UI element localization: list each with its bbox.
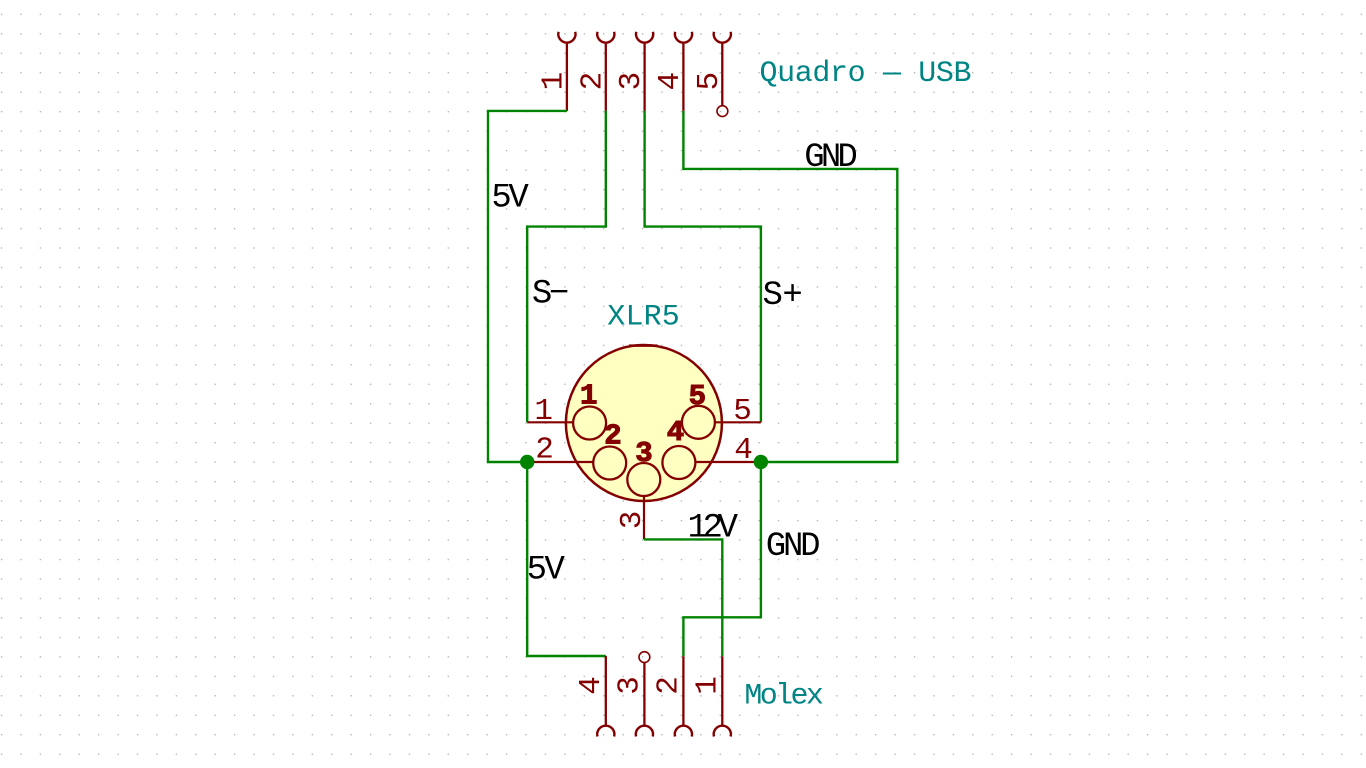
J2 socket arc pin 4: [597, 726, 614, 737]
svg-text:XLR5: XLR5: [607, 301, 680, 335]
svg-text:S−: S−: [532, 276, 569, 314]
svg-text:4: 4: [734, 433, 753, 468]
svg-text:2: 2: [604, 420, 621, 453]
junction dot left (5V net): [520, 455, 534, 469]
XLR pin 5 contact circle: [682, 406, 715, 439]
svg-text:5: 5: [692, 72, 727, 91]
connector J1 "Quadro - USB" top socket arcs: [558, 32, 731, 43]
J2 socket arc pin 2: [675, 726, 692, 737]
svg-text:2: 2: [535, 432, 554, 467]
svg-text:1: 1: [534, 394, 553, 429]
J1 pin 5 line: [721, 42, 723, 106]
J2 socket arc pin 1: [714, 726, 731, 737]
svg-text:2: 2: [575, 72, 610, 91]
XLR pin 4 stub: [695, 461, 761, 463]
wire net 12V: XLR pin3 to Molex pin1: [644, 539, 722, 656]
junction dot right (GND net): [754, 455, 768, 469]
svg-text:Molex: Molex: [744, 679, 824, 713]
J1 pin 1 line: [566, 42, 568, 111]
J2 pin 1 line: [721, 656, 723, 726]
svg-text:4: 4: [667, 416, 684, 449]
J1 socket arc pin 1: [558, 32, 575, 43]
J1 pin 3 line: [643, 42, 645, 111]
wire net S+: J1 pin3 to XLR pin5: [645, 111, 761, 422]
svg-text:4: 4: [574, 676, 609, 695]
XLR pin 1 contact circle: [573, 407, 606, 440]
svg-text:GND: GND: [766, 528, 821, 566]
wire net 5V top: J1 pin1 to left junction: [488, 111, 567, 462]
J1 pin 5 unconnected end circle: [717, 106, 728, 117]
XLR pin 3 stub: [643, 495, 645, 539]
svg-text:3: 3: [635, 437, 652, 470]
svg-text:2: 2: [651, 676, 686, 695]
XLR5 key notch chord: [629, 344, 657, 347]
J2 socket arc pin 3: [636, 726, 653, 737]
connector J2 Molex socket arcs: [597, 726, 731, 737]
connector J2 Molex pin lines: [606, 656, 723, 726]
wire net 5V bottom: left junction to Molex pin4: [527, 462, 606, 656]
J2 pin 2 line: [682, 656, 684, 726]
svg-text:3: 3: [612, 676, 647, 695]
svg-text:S+: S+: [763, 277, 803, 315]
XLR pin 2 stub: [527, 461, 594, 463]
J2 pin 3 unconnected end circle: [639, 652, 650, 663]
svg-text:5: 5: [733, 394, 752, 429]
J2 pin 4 line: [605, 656, 607, 726]
J1 socket arc pin 4: [675, 32, 692, 43]
XLR pin 3 contact circle: [627, 463, 660, 496]
J1 socket arc pin 2: [597, 32, 614, 43]
J1 pin 4 line: [682, 42, 684, 111]
svg-text:5V: 5V: [491, 180, 529, 218]
svg-text:Quadro — USB: Quadro — USB: [760, 57, 972, 91]
svg-text:1: 1: [690, 676, 725, 695]
svg-text:12V: 12V: [688, 509, 739, 547]
XLR pin 1 stub: [527, 421, 573, 423]
J1 pin 2 line: [605, 42, 607, 111]
wire net S-: J1 pin2 to XLR pin1: [527, 111, 606, 422]
svg-text:GND: GND: [804, 139, 858, 177]
wire net GND bottom: right junction to Molex pin2: [683, 462, 761, 656]
XLR pin 2 contact circle: [593, 447, 626, 480]
svg-text:1: 1: [580, 380, 597, 413]
svg-text:3: 3: [615, 511, 650, 530]
wire net GND top: J1 pin4 right and down to right junction: [683, 111, 897, 462]
J1 socket arc pin 5: [714, 32, 731, 43]
connector J1 pin lines: [567, 42, 722, 111]
connector U1 XLR5 body circle: [566, 345, 722, 501]
svg-text:5: 5: [689, 380, 706, 413]
svg-text:1: 1: [536, 72, 571, 91]
J2 pin 3 line: [643, 663, 645, 727]
J1 socket arc pin 3: [636, 32, 653, 43]
XLR pin 4 contact circle: [662, 446, 695, 479]
svg-text:5V: 5V: [527, 551, 566, 589]
svg-text:3: 3: [614, 72, 649, 91]
svg-text:4: 4: [653, 72, 688, 91]
XLR pin 5 stub: [714, 421, 761, 423]
